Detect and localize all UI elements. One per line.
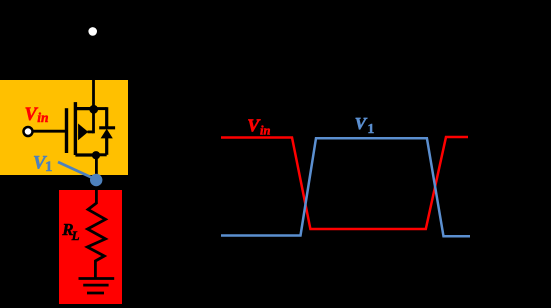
svg-text:V: V xyxy=(355,114,368,133)
svg-text:1: 1 xyxy=(367,122,374,137)
svg-text:in: in xyxy=(37,110,48,125)
svg-text:1: 1 xyxy=(45,159,53,175)
svg-text:in: in xyxy=(260,123,270,137)
svg-text:L: L xyxy=(71,228,80,243)
